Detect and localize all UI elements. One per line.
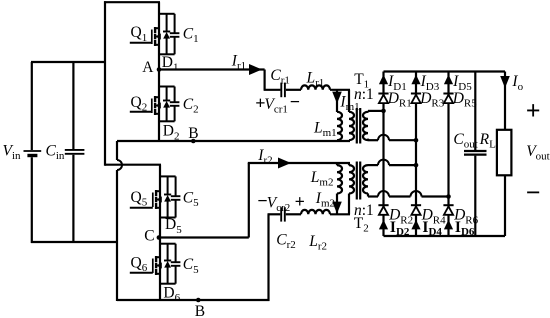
wire: tank 1 horizontal [264, 89, 281, 91]
capacitor C5 across Q5 [175, 176, 177, 196]
wire: parallel-branch bottom of Q6 [160, 283, 176, 285]
wire: parallel-branch top of Q2 [159, 86, 175, 88]
transformer T2 secondary [363, 165, 368, 193]
body diode D1 of Q1 [166, 14, 168, 32]
wire: node C to tank 2 riser [157, 235, 162, 240]
svg-text:−: − [290, 92, 300, 112]
wire: positive bus vertical at left of bridges [104, 1, 106, 166]
wire: tank 2 bottom horizontal [268, 213, 281, 215]
capacitor Cout [474, 72, 476, 151]
diode DR5 [443, 93, 453, 95]
diode DR2 [378, 204, 388, 206]
current arrow ID5 [444, 75, 453, 85]
wire: T2 secondary bottom to rectifier leg 3 (hops over legs 1,2) [367, 193, 369, 196]
node A [157, 67, 162, 72]
node B (upper) [191, 139, 196, 144]
wire: Cr1 to Lr1 [286, 89, 301, 91]
transformer T1 secondary [363, 112, 368, 140]
wire: parallel-branch top of Q1 [159, 13, 175, 15]
svg-text:+: + [526, 96, 541, 125]
wire: Lr2 to T2 primary bottom [330, 213, 350, 215]
svg-text:+: + [295, 192, 305, 212]
wire: Lr1 to T1 primary [330, 89, 350, 91]
svg-text:A: A [142, 59, 154, 76]
resistor RL (load) [504, 72, 506, 130]
current arrow ID4 [411, 220, 420, 230]
svg-text:B: B [195, 303, 205, 318]
capacitor C2 across Q2 [174, 87, 176, 103]
transistor Q1 [154, 27, 156, 33]
current arrow ID1 [379, 75, 388, 85]
transformer T1 primary [348, 90, 350, 112]
wire: rectifier leg 2 [415, 72, 417, 237]
svg-text:C: C [144, 228, 154, 245]
diode DR6 [443, 204, 453, 206]
current arrow ID6 [444, 220, 453, 230]
diode DR3 [411, 93, 421, 95]
diode DR1 [378, 93, 388, 95]
wire: tank 2 return drop [267, 214, 269, 301]
wire: Cr2 to Lr2 [286, 213, 301, 215]
body diode D6 of Q6 [167, 244, 169, 261]
transistor Q6 [155, 256, 157, 262]
wire: top rail of lower half-bridge [105, 164, 161, 166]
capacitor C5 across Q6 [175, 244, 177, 262]
inductor Lr2 [301, 210, 330, 214]
wire: upper bridge drain line (Q1/Q2 string) [158, 2, 160, 141]
wire: T2 secondary top to rectifier leg 2 (hop over leg 1) [368, 164, 378, 166]
wire: parallel-branch top of Q6 [160, 243, 176, 245]
wire: input bottom bus [31, 241, 118, 243]
inductor Lm2 (magnetizing) with Im2 arrow [336, 163, 338, 165]
current arrow Io [500, 76, 510, 88]
wire: tank 1 down jog [264, 70, 266, 90]
inductor Lm1 (magnetizing) with Im1 arrow [336, 90, 338, 112]
svg-text:−: − [526, 178, 541, 207]
diode DR4 [411, 204, 421, 206]
capacitor Cr2 (series resonant cap) [280, 207, 282, 221]
wire: input top bus from Vin+ to bridge [31, 61, 106, 63]
wire: rectifier negative output rail [384, 235, 506, 237]
wire: bottom B rail (lower bridge return) [117, 299, 270, 301]
wire: top rail of upper half-bridge [104, 1, 160, 3]
wire: tank 2 riser [248, 163, 250, 238]
capacitor C1 across Q1 [174, 14, 176, 33]
wire: T1 secondary bottom to rectifier leg 2 (hop over leg 1) [367, 139, 369, 141]
transistor Q5 [155, 190, 157, 196]
wire: Ir2 feed to T2 with current arrow [248, 162, 350, 164]
wire: rectifier positive output rail [384, 70, 506, 72]
wire: T1 secondary top to rectifier leg 1 [368, 110, 384, 112]
transformer T1 core [356, 108, 358, 144]
body diode D5 of Q5 [167, 176, 169, 194]
current arrow ID3 [411, 75, 420, 85]
wire: rectifier leg 3 [447, 72, 449, 237]
capacitor Cr1 (series resonant cap) [280, 83, 282, 98]
current arrow ID2 [379, 220, 388, 230]
wire: node A to resonant tank 1 with current arrow Ir1 [159, 68, 265, 70]
wire: rectifier leg 1 [382, 72, 384, 237]
wire: lower bridge drain line (Q5/Q6 string) [159, 165, 161, 301]
wire: parallel-branch top of Q5 [160, 175, 176, 177]
svg-text:n:1: n:1 [354, 86, 374, 103]
battery Vin (source) [31, 62, 33, 150]
wire: parallel-branch bottom of Q5 [160, 217, 176, 219]
transformer T2 primary [348, 163, 350, 165]
wire: parallel-branch bottom of Q2 [159, 120, 175, 122]
body diode D2 of Q2 [166, 87, 168, 101]
wire: negative bus vertical joining node B rails (with crossover hop) [116, 141, 118, 160]
capacitor Cin [72, 62, 74, 149]
wire: parallel-branch bottom of Q1 [159, 53, 175, 55]
inductor Lr1 [301, 85, 330, 89]
wire: B rail (upper bridge return / T1 primary bottom) [117, 140, 350, 142]
transistor Q2 [154, 96, 156, 102]
transformer T2 core [356, 162, 358, 200]
node B (lower) [196, 298, 201, 303]
svg-text:B: B [188, 125, 198, 142]
